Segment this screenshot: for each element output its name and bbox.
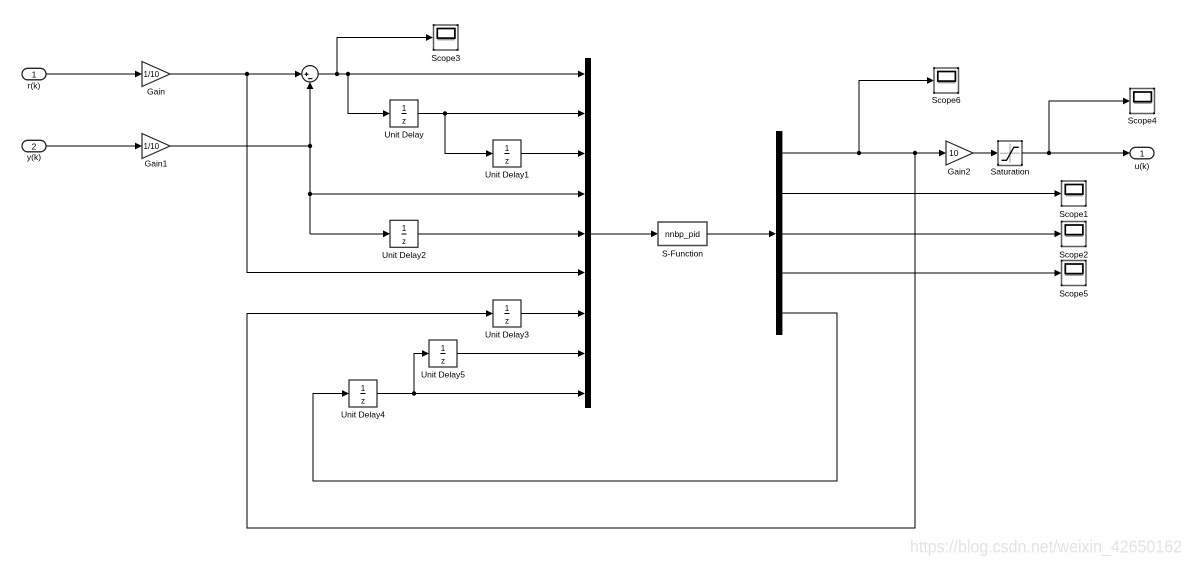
svg-text:Unit Delay2: Unit Delay2 — [382, 250, 426, 260]
unit delay block Unit Delay4 — [341, 380, 385, 420]
wire y feedback vertical into sum — [307, 82, 314, 234]
svg-text:1: 1 — [441, 344, 446, 353]
svg-text:Scope3: Scope3 — [431, 53, 460, 63]
wire to Unit Delay1 — [445, 114, 493, 157]
gain block Gain2 10 — [946, 141, 973, 177]
wire to Scope4 — [1049, 98, 1130, 153]
gain block Gain1 1/10 — [142, 134, 170, 169]
inport 2 y(k) — [22, 140, 46, 162]
wire inport1 to Gain — [46, 71, 142, 78]
svg-text:Unit Delay3: Unit Delay3 — [485, 330, 529, 340]
svg-text:1: 1 — [32, 69, 37, 79]
svg-text:z: z — [361, 397, 365, 406]
svg-text:1: 1 — [402, 104, 407, 113]
scope Scope2 — [1059, 221, 1088, 260]
node r-branch junction — [245, 72, 249, 76]
wire outer feedback loop (u to Unit Delay3) — [247, 153, 915, 528]
wire S-Function to demux — [707, 230, 776, 237]
svg-text:u(k): u(k) — [1135, 161, 1150, 171]
svg-text:1/10: 1/10 — [144, 70, 160, 79]
svg-text:https://blog.csdn.net/weixin_4: https://blog.csdn.net/weixin_42650162 — [910, 537, 1182, 558]
wire Gain2 to Saturation — [973, 150, 998, 157]
svg-text:Unit Delay: Unit Delay — [384, 130, 424, 140]
wire demux out4 to Scope5 — [782, 270, 1061, 277]
scope Scope4 — [1128, 88, 1157, 126]
wire demux out1 to Gain2 — [782, 150, 946, 157]
node scope3 branch — [335, 72, 339, 76]
svg-text:S-Function: S-Function — [662, 248, 703, 258]
wire Unit Delay4 to mux — [377, 390, 585, 397]
svg-text:Unit Delay4: Unit Delay4 — [341, 410, 385, 420]
svg-text:Scope4: Scope4 — [1128, 116, 1157, 126]
wire r direct to mux — [247, 74, 585, 276]
node unit-delay branch — [346, 72, 350, 76]
svg-text:z: z — [505, 317, 509, 326]
gain block Gain 1/10 — [142, 62, 170, 97]
s-function block nnbp_pid — [658, 222, 707, 258]
svg-text:Scope6: Scope6 — [932, 95, 961, 105]
wire Gain to Sum — [170, 71, 302, 78]
node scope6 branch — [857, 151, 861, 155]
scope Scope1 — [1059, 180, 1088, 219]
outport 1 u(k) — [1130, 147, 1154, 171]
svg-text:Unit Delay1: Unit Delay1 — [485, 170, 529, 180]
node unit-delay1 branch — [443, 111, 447, 115]
wire to Unit Delay2 — [310, 230, 390, 237]
node y-mux junction — [308, 192, 312, 196]
svg-text:r(k): r(k) — [28, 80, 41, 90]
svg-text:1: 1 — [505, 144, 510, 153]
wire y direct to mux — [310, 191, 585, 198]
svg-text:z: z — [441, 357, 445, 366]
svg-text:y(k): y(k) — [27, 152, 41, 162]
node unit-delay5 branch — [412, 391, 416, 395]
svg-text:1/10: 1/10 — [144, 142, 160, 151]
svg-text:Scope2: Scope2 — [1059, 250, 1088, 260]
wire to Unit Delay5 — [414, 350, 429, 393]
wire sum output to mux — [318, 71, 585, 78]
sum block (+/-) — [302, 66, 318, 82]
svg-text:z: z — [402, 117, 406, 126]
wire Unit Delay2 to mux — [418, 230, 585, 237]
wire mux to S-Function — [591, 230, 658, 237]
svg-text:Scope1: Scope1 — [1059, 209, 1088, 219]
scope Scope3 — [431, 24, 460, 63]
node Gain1 junction — [308, 144, 312, 148]
wire Unit Delay3 to mux — [521, 310, 585, 317]
wire to Scope3 — [337, 34, 433, 74]
scope Scope5 — [1059, 260, 1088, 299]
scope Scope6 — [932, 67, 961, 105]
svg-text:Unit Delay5: Unit Delay5 — [421, 370, 465, 380]
svg-text:10: 10 — [949, 148, 959, 158]
wire Unit Delay to mux — [418, 110, 585, 117]
svg-text:Gain: Gain — [147, 87, 165, 97]
demux bar — [776, 131, 782, 335]
svg-text:Gain2: Gain2 — [948, 167, 971, 177]
saturation block — [991, 140, 1030, 176]
wire to Scope6 — [859, 77, 934, 153]
svg-text:1: 1 — [402, 224, 407, 233]
wire Unit Delay5 to mux — [457, 350, 585, 357]
svg-text:Gain1: Gain1 — [145, 159, 168, 169]
unit delay block Unit Delay3 — [485, 300, 529, 340]
svg-text:1: 1 — [1140, 148, 1145, 158]
svg-text:1: 1 — [361, 384, 366, 393]
svg-text:Scope5: Scope5 — [1059, 289, 1088, 299]
node scope4 branch — [1047, 151, 1051, 155]
svg-text:Saturation: Saturation — [991, 167, 1030, 177]
unit delay block Unit Delay2 — [382, 220, 426, 260]
unit delay block Unit Delay — [384, 100, 424, 140]
svg-text:2: 2 — [32, 141, 37, 151]
node outer-loop branch — [913, 151, 917, 155]
unit delay block Unit Delay1 — [485, 140, 529, 180]
wire inner feedback loop (demux out5 to Unit Delay4) — [313, 313, 837, 481]
wire Saturation to outport — [1022, 150, 1130, 157]
inport 1 r(k) — [22, 68, 46, 90]
svg-text:z: z — [402, 237, 406, 246]
wire demux out3 to Scope2 — [782, 230, 1061, 237]
wire to Unit Delay — [348, 74, 390, 117]
svg-text:z: z — [505, 157, 509, 166]
wire Gain1 to feedback junction — [170, 145, 310, 147]
svg-text:1: 1 — [505, 304, 510, 313]
wire inport2 to Gain1 — [46, 143, 142, 150]
wire Unit Delay1 to mux — [521, 150, 585, 157]
svg-text:nnbp_pid: nnbp_pid — [665, 229, 700, 239]
wire demux out2 to Scope1 — [782, 190, 1061, 197]
unit delay block Unit Delay5 — [421, 340, 465, 380]
mux bar — [585, 58, 591, 408]
